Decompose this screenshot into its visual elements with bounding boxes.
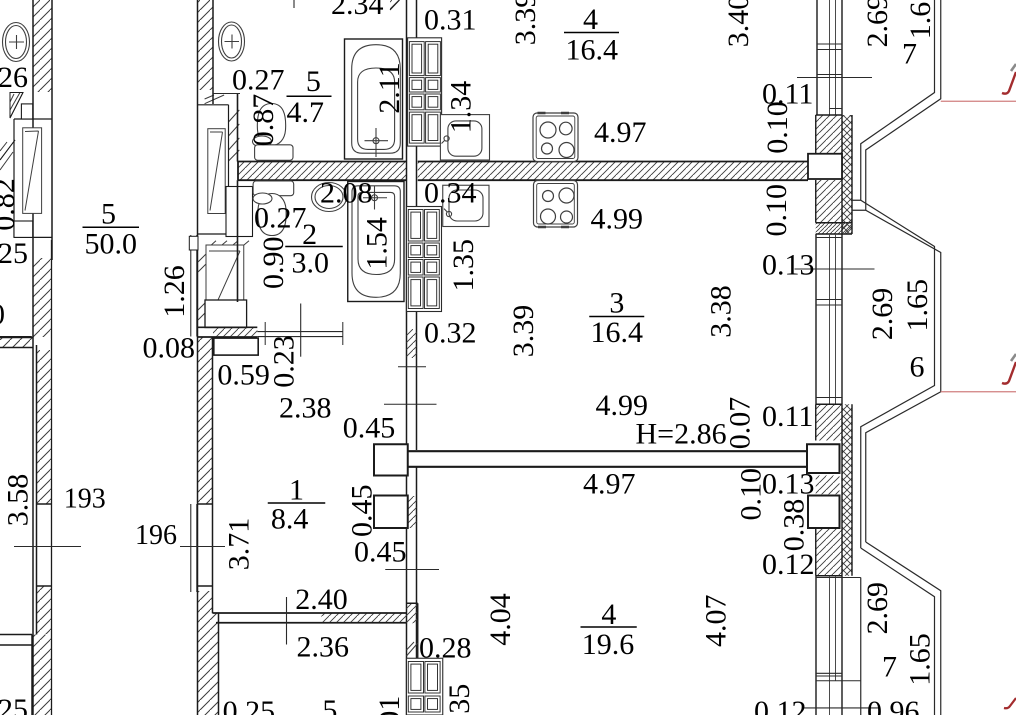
svg-text:0.45: 0.45: [354, 536, 407, 569]
wall hatch segment above bottom window: [37, 586, 52, 634]
svg-text:0.28: 0.28: [419, 632, 472, 665]
svg-text:5: 5: [306, 65, 321, 98]
svg-text:4.97: 4.97: [583, 468, 636, 501]
hatched wall block mid right: [816, 404, 852, 576]
svg-text:2.69: 2.69: [861, 582, 894, 635]
svg-text:0.25: 0.25: [223, 695, 276, 715]
wall hatch top segment: [198, 0, 214, 90]
hatch segment at door 2: [407, 496, 417, 528]
svg-text:50.0: 50.0: [84, 228, 137, 261]
wall edges: [407, 0, 417, 715]
bathroom 2 left wall: [237, 180, 239, 302]
svg-text:0.13: 0.13: [762, 249, 815, 282]
svg-text:0.10: 0.10: [760, 184, 793, 237]
door jamb block left lower: [374, 496, 408, 529]
boiler ellipse: [312, 183, 347, 212]
wall band right part: [418, 162, 808, 181]
svg-text:0.11: 0.11: [762, 400, 813, 433]
red letter bottom: [1004, 698, 1016, 708]
svg-text:0.87: 0.87: [247, 94, 280, 147]
svg-text:2.11: 2.11: [373, 62, 406, 113]
hatch block at bottom corner: [407, 603, 418, 623]
svg-text:25: 25: [0, 693, 28, 715]
svg-text:0.23: 0.23: [268, 335, 301, 388]
sill box top: [21, 104, 32, 119]
svg-text:1.54: 1.54: [361, 217, 394, 270]
svg-text:2.08: 2.08: [320, 177, 373, 210]
svg-text:0.31: 0.31: [424, 4, 477, 37]
ventilation duct grid G3: [407, 658, 443, 715]
svg-text:5: 5: [101, 198, 116, 231]
fraction lines: [83, 33, 645, 628]
svg-text:8.4: 8.4: [271, 503, 309, 536]
washbasin left: [3, 23, 30, 62]
red letter top: [1002, 64, 1016, 94]
sink 1: [440, 115, 489, 160]
toilet 2 bowl: [258, 194, 286, 236]
balcony door frame edge: [191, 235, 197, 337]
svg-text:16.4: 16.4: [591, 316, 644, 349]
radiator panel upper: [208, 129, 225, 214]
svg-text:0.13: 0.13: [762, 468, 815, 501]
svg-text:1.34: 1.34: [445, 81, 478, 134]
wall hatch top segment: [33, 0, 52, 92]
svg-text:0.45: 0.45: [343, 412, 396, 445]
window 2 (middle): [816, 234, 842, 404]
svg-text:1.65: 1.65: [904, 0, 937, 39]
svg-text:4.97: 4.97: [594, 116, 647, 149]
svg-text:3.39: 3.39: [509, 0, 542, 45]
svg-text:2.34: 2.34: [331, 0, 384, 21]
svg-text:0.35: 0.35: [443, 684, 476, 715]
hatch segment below G2: [407, 329, 417, 358]
door box below wall: [214, 338, 258, 355]
crosshatch shaft strip top: [842, 115, 852, 234]
wall hatch mid segment: [198, 337, 213, 504]
hatch wedge below: [407, 642, 418, 656]
red letter middle: [1002, 354, 1016, 384]
hatch wedge left upper: [10, 93, 23, 119]
svg-text:193: 193: [64, 484, 106, 515]
stove 1: [533, 113, 578, 162]
svg-text:H=2.86: H=2.86: [636, 418, 727, 451]
wall edge lines: [33, 0, 52, 715]
svg-text:0.96: 0.96: [867, 695, 920, 715]
wall hatch mid segment: [33, 258, 52, 337]
svg-text:4.99: 4.99: [591, 203, 644, 236]
ventilation duct grid G2: [407, 207, 442, 312]
window 3 (bottom): [816, 576, 861, 715]
svg-text:0.34: 0.34: [424, 177, 477, 210]
bathtub 2: [348, 182, 404, 302]
svg-text:0.32: 0.32: [424, 317, 477, 350]
toilet 1 bowl: [253, 104, 294, 161]
door opening box top right: [808, 154, 842, 179]
stove 2: [534, 181, 578, 228]
svg-text:1.01: 1.01: [373, 696, 406, 715]
svg-text:0.27: 0.27: [232, 64, 285, 97]
wall hatch strip right of window frame: [229, 110, 240, 161]
red reference line top: [941, 100, 1016, 102]
svg-text:3.38: 3.38: [705, 285, 738, 338]
svg-text:5: 5: [322, 694, 337, 715]
hatch wedge above radiator: [206, 241, 249, 250]
top corner hatch wedge: [390, 0, 399, 10]
bathtub 1: [345, 39, 403, 159]
sill box bottom: [14, 221, 33, 237]
svg-text:4: 4: [601, 598, 616, 631]
svg-text:1.65: 1.65: [901, 279, 934, 332]
door frame bottom window: [191, 504, 197, 592]
red reference line middle: [941, 391, 1016, 393]
ventilation duct grid G1: [408, 38, 442, 146]
hatch wedge left lower: [0, 140, 15, 170]
svg-text:3.71: 3.71: [223, 518, 256, 571]
svg-text:0.10: 0.10: [761, 101, 794, 154]
svg-text:3: 3: [609, 287, 624, 320]
svg-text:0: 0: [0, 298, 5, 331]
svg-text:2.40: 2.40: [295, 583, 348, 616]
svg-text:0.38: 0.38: [777, 499, 810, 552]
window frame left apartment: [14, 119, 52, 237]
svg-text:19.6: 19.6: [582, 628, 635, 661]
svg-text:4.7: 4.7: [287, 96, 325, 129]
wall hatch strokes mid: [198, 254, 206, 320]
window 1 (top): [817, 0, 842, 115]
wall hatch bottom wide segment: [198, 613, 219, 715]
svg-text:2.38: 2.38: [279, 392, 332, 425]
svg-text:4.07: 4.07: [700, 595, 733, 648]
svg-text:3.40: 3.40: [722, 0, 755, 47]
svg-text:26: 26: [0, 61, 28, 94]
wall edge lines: [198, 0, 214, 715]
apartment number 193 red: [64, 484, 177, 552]
svg-text:4: 4: [583, 3, 598, 36]
hatched wall block upper right: [816, 115, 852, 234]
svg-text:0.59: 0.59: [217, 359, 270, 392]
svg-text:3.39: 3.39: [507, 305, 540, 358]
svg-text:2.69: 2.69: [861, 0, 894, 48]
svg-text:2.36: 2.36: [297, 631, 350, 664]
washbasin middle: [219, 22, 245, 61]
svg-text:6: 6: [910, 351, 925, 384]
door jamb block right lower: [808, 496, 840, 529]
svg-text:0.12: 0.12: [762, 548, 815, 581]
wall hatch segment below corner: [37, 350, 52, 504]
toilet 2 tank: [253, 181, 294, 236]
svg-text:0.12: 0.12: [754, 695, 807, 715]
bathroom 2 bottom wall hatched: [198, 322, 343, 355]
svg-text:3.58: 3.58: [2, 474, 35, 527]
wall hatch wedge above window: [205, 95, 225, 104]
window frame: [198, 105, 229, 234]
door jamb block left upper: [374, 444, 408, 475]
svg-text:3.0: 3.0: [292, 247, 330, 280]
wall hatch above bottom corner: [198, 591, 213, 614]
svg-text:0.90: 0.90: [257, 237, 290, 290]
sink 2: [443, 185, 489, 226]
svg-text:25: 25: [0, 237, 28, 270]
svg-text:0.45: 0.45: [346, 485, 379, 538]
radiator panel: [23, 128, 42, 214]
radiator panel lower: [206, 245, 244, 327]
niche box: [205, 300, 247, 328]
crosshatch shaft strip mid: [842, 404, 852, 576]
bathroom 2 bottom thin wall with door: [257, 332, 343, 337]
neighbour interior wall going left: [0, 338, 33, 348]
wall band left part: [238, 162, 407, 181]
bathroom 1 left wall: [237, 93, 239, 162]
sill box: [226, 187, 253, 237]
door jamb block right upper: [807, 444, 840, 473]
svg-text:16.4: 16.4: [566, 34, 619, 67]
svg-text:2.69: 2.69: [866, 288, 899, 341]
toilet 1 tank: [255, 145, 293, 161]
svg-text:0.08: 0.08: [143, 332, 196, 365]
neighbour bottom wall lines: [0, 635, 32, 646]
corner box: [189, 236, 198, 250]
svg-text:1.26: 1.26: [158, 265, 191, 318]
svg-text:1.35: 1.35: [447, 239, 480, 292]
svg-text:1.65: 1.65: [904, 633, 937, 686]
svg-text:0.07: 0.07: [723, 397, 756, 450]
svg-text:0.27: 0.27: [254, 202, 307, 235]
svg-text:7: 7: [902, 38, 917, 71]
svg-text:196: 196: [135, 520, 177, 551]
svg-text:0.82: 0.82: [0, 178, 21, 231]
wall hatch bottom segment: [32, 635, 51, 715]
svg-text:4.04: 4.04: [484, 593, 517, 646]
svg-text:7: 7: [882, 651, 897, 684]
